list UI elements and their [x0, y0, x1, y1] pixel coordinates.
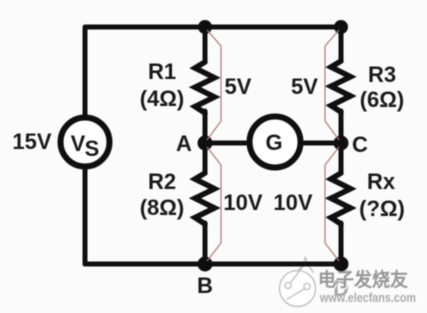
watermark text 电子发烧友: [318, 268, 409, 292]
wire right column: node C to Rx: [339, 143, 344, 173]
svg-text:B: B: [197, 273, 213, 298]
node C junction dot: [334, 136, 349, 151]
wire bridge: galvanometer to node C: [300, 141, 341, 146]
resistor R3: [331, 61, 351, 112]
svg-text:5V: 5V: [291, 74, 318, 99]
svg-text:V: V: [71, 131, 86, 156]
wire right column: R3 to node C: [339, 111, 344, 143]
resistor Rx: [331, 173, 351, 224]
svg-text:5V: 5V: [225, 74, 252, 99]
node A junction dot: [198, 136, 213, 151]
wire bottom rail: [85, 262, 341, 267]
wire top rail and left rail upper segment: [85, 27, 341, 117]
watermark logo speech bubble with circuit traces: [280, 258, 316, 307]
resistor R2: [195, 173, 215, 224]
svg-text:10V: 10V: [223, 190, 262, 215]
galvanometer G circle: [250, 117, 301, 168]
svg-text:(4Ω): (4Ω): [140, 86, 185, 111]
svg-text:R2: R2: [148, 169, 176, 194]
svg-text:G: G: [265, 130, 282, 155]
svg-text:R3: R3: [368, 62, 396, 87]
voltage source VS circle: [61, 118, 110, 167]
svg-text:(8Ω): (8Ω): [140, 195, 185, 220]
wire bridge: node A to galvanometer: [205, 141, 250, 146]
voltage bracket 5V across R3: [325, 30, 339, 140]
wire right column: Rx to node D: [339, 223, 344, 264]
node junction dot top-right: [334, 20, 348, 34]
resistor R1: [195, 62, 215, 113]
svg-text:Rx: Rx: [367, 169, 396, 194]
svg-text:10V: 10V: [273, 190, 312, 215]
svg-text:C: C: [352, 132, 368, 157]
voltage bracket 10V across R2: [207, 147, 221, 261]
svg-text:电子发烧友: 电子发烧友: [318, 268, 408, 291]
wire right column: top-right node to R3: [339, 27, 344, 61]
svg-text:(?Ω): (?Ω): [359, 196, 405, 221]
wire mid column: node A to R2: [203, 143, 208, 173]
voltage bracket 5V across R1: [207, 30, 221, 140]
node D junction dot: [334, 257, 349, 272]
svg-text:A: A: [176, 131, 192, 156]
wire mid column: top node to R1: [203, 27, 208, 61]
svg-text:S: S: [85, 136, 100, 161]
svg-text:(6Ω): (6Ω): [360, 87, 405, 112]
svg-text:www.elecfans.com: www.elecfans.com: [319, 291, 416, 305]
wire left rail lower segment: [83, 167, 88, 264]
wire mid column: R1 to node A: [203, 111, 208, 143]
node B junction dot: [198, 257, 213, 272]
svg-text:15V: 15V: [12, 129, 51, 154]
watermark text www.elecfans.com: [319, 291, 416, 306]
svg-text:R1: R1: [148, 59, 176, 84]
watermark white halo over node label D: [330, 275, 352, 298]
voltage bracket 10V across Rx: [325, 147, 339, 261]
wire mid column: R2 to node B: [203, 223, 208, 264]
node junction dot top-mid: [198, 20, 212, 34]
